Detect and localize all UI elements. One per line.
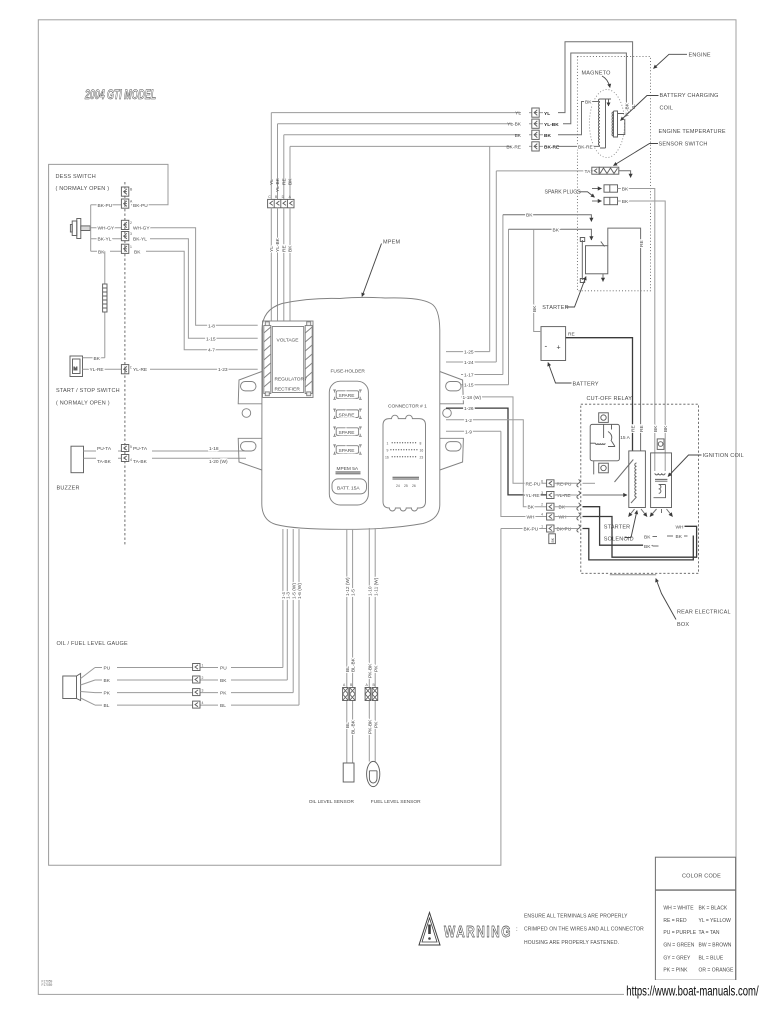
svg-text:1-8: 1-8 xyxy=(208,323,215,329)
svg-text:BK-PU: BK-PU xyxy=(98,203,113,209)
cut-off relay coil xyxy=(590,443,605,444)
svg-text:YL = YELLOW: YL = YELLOW xyxy=(699,918,732,924)
voltage regulator module xyxy=(263,321,314,398)
svg-text:1-12 (W): 1-12 (W) xyxy=(345,577,351,596)
wire 1-2 to YL-RE xyxy=(446,420,547,507)
svg-text:BOX: BOX xyxy=(677,622,689,628)
svg-text:5: 5 xyxy=(130,445,132,449)
magneto dotted ellipse xyxy=(589,90,624,158)
svg-text:BK: BK xyxy=(104,678,111,684)
svg-text:3: 3 xyxy=(202,689,204,693)
svg-text:TA-BK: TA-BK xyxy=(133,459,148,465)
svg-text:BK: BK xyxy=(551,537,555,542)
svg-text:BK-PU: BK-PU xyxy=(524,527,539,533)
4-pin connector block C B D A xyxy=(268,199,294,207)
svg-text:BUZZER: BUZZER xyxy=(57,486,80,492)
thick BK-PU wire inside box xyxy=(583,529,694,560)
MPEM right circle hole xyxy=(443,409,452,418)
svg-text:YL: YL xyxy=(269,246,275,252)
svg-text:BL: BL xyxy=(345,666,351,672)
starter solenoid coil xyxy=(635,463,637,497)
battery xyxy=(541,327,566,361)
wire YL-RE row xyxy=(83,368,258,370)
wire bundle row1 YL xyxy=(271,112,543,114)
svg-text:TA: TA xyxy=(585,169,592,175)
svg-text:M: M xyxy=(74,366,78,371)
connector #1 bottom bar and pins 24 25 26 xyxy=(393,477,420,479)
svg-text:STARTER: STARTER xyxy=(542,305,569,311)
wire BK engine row A with v3 riser (1-17) xyxy=(461,215,503,375)
cut-off relay mounting ear top xyxy=(599,413,609,423)
starter motor xyxy=(580,238,608,283)
svg-text:SPARE: SPARE xyxy=(339,430,355,436)
svg-text:1-15: 1-15 xyxy=(464,383,474,389)
svg-text:1-2: 1-2 xyxy=(465,418,472,424)
connector pin 1 xyxy=(121,244,128,253)
BK branch wire with inline fuse xyxy=(104,251,106,357)
svg-text:PU: PU xyxy=(220,666,227,672)
svg-text:BK-YL: BK-YL xyxy=(98,237,112,243)
svg-text:BK: BK xyxy=(544,133,551,139)
svg-text:REAR ELECTRICAL: REAR ELECTRICAL xyxy=(677,610,731,616)
wire bundle row2 YL-BK xyxy=(278,123,544,125)
svg-text:RE: RE xyxy=(639,425,645,432)
svg-text:YL: YL xyxy=(269,179,275,185)
svg-text:MPEM 5A: MPEM 5A xyxy=(337,466,359,472)
oil/fuel gauge symbol xyxy=(63,674,81,701)
svg-text:BL: BL xyxy=(104,703,110,709)
svg-text:1-26: 1-26 xyxy=(464,406,474,412)
svg-text:1-5: 1-5 xyxy=(351,589,357,596)
rear box bottom plate line xyxy=(610,574,656,576)
svg-text:RE: RE xyxy=(631,425,637,432)
svg-text:YL-RE: YL-RE xyxy=(133,367,147,373)
svg-text:WH: WH xyxy=(676,524,685,530)
svg-text:PU-TA: PU-TA xyxy=(133,446,148,452)
MPEM right bottom mounting flange xyxy=(440,438,464,470)
svg-text:TA = TAN: TA = TAN xyxy=(699,930,720,936)
wire YL route over top xyxy=(558,42,633,113)
svg-text:SENSOR SWITCH: SENSOR SWITCH xyxy=(659,142,708,148)
cut-off relay contact xyxy=(608,425,615,447)
svg-text:BL: BL xyxy=(345,722,351,728)
svg-text:BK: BK xyxy=(94,356,101,362)
svg-text:YL-RE: YL-RE xyxy=(526,493,540,499)
small connector tag below BK-PU xyxy=(549,534,556,544)
svg-text:SPARE: SPARE xyxy=(339,448,355,454)
warning triangle xyxy=(419,913,440,946)
svg-text:PU-TA: PU-TA xyxy=(97,446,112,452)
wire PU row xyxy=(95,667,283,669)
wire YL-BK route over top xyxy=(563,53,626,124)
wire WH-GY row xyxy=(91,228,258,326)
svg-text:1-24: 1-24 xyxy=(464,360,474,366)
wire PU-TA row xyxy=(84,450,247,452)
svg-text:BK-PU: BK-PU xyxy=(557,527,572,533)
svg-text:1-5 (W): 1-5 (W) xyxy=(291,583,297,599)
svg-text:PK: PK xyxy=(104,691,111,697)
svg-text:BK: BK xyxy=(663,425,669,432)
svg-text:YL-RE: YL-RE xyxy=(90,367,104,373)
inline fuse component xyxy=(103,284,107,312)
MPEM right top mounting flange xyxy=(440,372,464,404)
svg-text:CONNECTOR # 1: CONNECTOR # 1 xyxy=(388,404,427,410)
svg-text:4: 4 xyxy=(202,701,204,705)
svg-text:1-9: 1-9 xyxy=(465,429,472,435)
wire BK row xyxy=(91,251,258,349)
start/stop switch symbol xyxy=(70,356,83,377)
svg-text:1-11 (W): 1-11 (W) xyxy=(373,577,379,596)
svg-text:RE-PU: RE-PU xyxy=(526,481,541,487)
svg-text:2004 GTI MODEL: 2004 GTI MODEL xyxy=(84,87,156,102)
fuse SPARE 4 xyxy=(333,445,362,454)
svg-text:YL-BK: YL-BK xyxy=(624,102,630,117)
svg-text:15 A: 15 A xyxy=(620,435,630,441)
svg-text:COLOR CODE: COLOR CODE xyxy=(682,874,721,880)
fuse SPARE 1 xyxy=(333,390,362,399)
starter solenoid body xyxy=(629,451,646,508)
svg-text:BATT. 15A: BATT. 15A xyxy=(337,486,360,492)
svg-text:RE: RE xyxy=(568,332,575,338)
svg-text:23: 23 xyxy=(420,456,424,460)
svg-text:BK-RE: BK-RE xyxy=(544,145,560,151)
wire BL row xyxy=(95,704,299,706)
svg-text:OIL LEVEL SENSOR: OIL LEVEL SENSOR xyxy=(309,799,355,805)
battery BK ground wire xyxy=(534,229,541,331)
svg-text:PK: PK xyxy=(220,691,227,697)
svg-text:BK-YL: BK-YL xyxy=(133,237,147,243)
connector #1 body xyxy=(383,415,426,511)
svg-text:1: 1 xyxy=(387,442,389,446)
connector pin A xyxy=(121,199,128,208)
svg-text:BL-BK: BL-BK xyxy=(351,719,357,734)
svg-text:F17059: F17059 xyxy=(42,983,53,987)
color code entries xyxy=(663,906,734,974)
DESS switch common vertical wire xyxy=(90,205,92,252)
svg-text:BK: BK xyxy=(585,100,592,106)
battery RE wire to rear box xyxy=(566,338,633,451)
svg-text:RE: RE xyxy=(281,178,287,185)
svg-text:8: 8 xyxy=(420,442,422,446)
svg-text:OR = ORANGE: OR = ORANGE xyxy=(699,967,735,973)
svg-text:25: 25 xyxy=(404,484,408,488)
fuse holder body xyxy=(329,381,368,505)
fuse SPARE 3 xyxy=(333,427,362,436)
svg-text:BK: BK xyxy=(515,133,522,139)
svg-text:PK = PINK: PK = PINK xyxy=(663,967,688,973)
svg-text:GN = GREEN: GN = GREEN xyxy=(663,943,694,949)
svg-text:BK: BK xyxy=(622,199,629,205)
wire bundle row4 BK-RE xyxy=(290,145,543,147)
wire TA row and v2 riser (1-24) xyxy=(446,171,593,362)
sensor ground wire and arrow xyxy=(619,171,631,178)
svg-text:PK-BK: PK-BK xyxy=(367,719,373,734)
svg-text:WH: WH xyxy=(559,515,568,521)
svg-text:SPARE: SPARE xyxy=(339,412,355,418)
svg-text:BK: BK xyxy=(622,187,629,193)
svg-text:YL-BK: YL-BK xyxy=(275,177,281,192)
starter RE wire down to rear box xyxy=(608,228,641,451)
engine dotted boundary box xyxy=(577,57,650,291)
svg-text:GY = GREY: GY = GREY xyxy=(663,955,691,961)
svg-text:3: 3 xyxy=(130,232,132,236)
wire BK from start/stop up to DESS BK xyxy=(83,357,105,359)
svg-text:PK-BK: PK-BK xyxy=(367,663,373,678)
starter ground arrow xyxy=(602,274,604,282)
svg-text:-: - xyxy=(545,342,548,351)
dashed connector boundary line xyxy=(124,182,126,545)
svg-text:PK: PK xyxy=(373,721,379,728)
svg-text:BL = BLUE: BL = BLUE xyxy=(699,955,724,961)
connector pin B xyxy=(121,187,128,196)
svg-text:1: 1 xyxy=(202,664,204,668)
DESS switch post symbol xyxy=(70,219,90,239)
svg-text:1-3: 1-3 xyxy=(285,592,291,599)
MPEM gauge wires down xyxy=(282,529,284,668)
svg-text:SPARE: SPARE xyxy=(339,393,355,399)
svg-text:1-20 (W): 1-20 (W) xyxy=(209,459,228,465)
svg-text:FUSE-HOLDER: FUSE-HOLDER xyxy=(331,369,366,375)
svg-text:1-25: 1-25 xyxy=(464,350,474,356)
engine temperature sensor component xyxy=(592,167,599,174)
svg-text:HOUSING ARE PROPERLY FASTENED.: HOUSING ARE PROPERLY FASTENED. xyxy=(524,940,619,946)
ignition coil mounting ear xyxy=(657,439,664,450)
svg-text:+: + xyxy=(557,345,561,352)
svg-text:1-18: 1-18 xyxy=(209,446,219,452)
svg-text:BK: BK xyxy=(676,534,683,540)
connector #1 pin dots xyxy=(390,442,417,457)
fuse BATT. 15A xyxy=(332,479,367,494)
svg-text:CRIMPED ON THE WIRES AND ALL C: CRIMPED ON THE WIRES AND ALL CONNECTOR xyxy=(524,926,644,932)
svg-text:BK: BK xyxy=(288,178,294,185)
svg-text:SPARK PLUGS: SPARK PLUGS xyxy=(545,190,582,196)
wire 1-9 row joining loop xyxy=(446,430,501,432)
svg-text:3: 3 xyxy=(541,491,543,495)
connector pin 4 xyxy=(121,455,128,462)
svg-text:BK: BK xyxy=(526,213,533,219)
oil sensor wires down xyxy=(346,529,348,763)
thick BK wire inside box xyxy=(583,507,653,546)
wire 1-26 to BK (bold) xyxy=(446,408,547,495)
svg-text:YL-BK: YL-BK xyxy=(544,122,559,128)
svg-text:1: 1 xyxy=(130,245,132,249)
svg-text:START / STOP SWITCH: START / STOP SWITCH xyxy=(56,388,120,394)
svg-text:6: 6 xyxy=(130,365,132,369)
svg-text:2: 2 xyxy=(202,676,204,680)
wire BK engine row B with v4 riser (1-15) xyxy=(461,229,509,384)
svg-text:BW = BROWN: BW = BROWN xyxy=(699,943,732,949)
wire TA-BK row xyxy=(84,457,247,459)
svg-text:BK = BLACK: BK = BLACK xyxy=(699,906,728,912)
svg-text:BATTERY: BATTERY xyxy=(573,381,599,387)
svg-text:DESS SWITCH: DESS SWITCH xyxy=(56,174,96,180)
svg-text:( NORMALY OPEN ): ( NORMALY OPEN ) xyxy=(56,401,110,407)
svg-text:MPEM: MPEM xyxy=(383,240,401,246)
buzzer symbol xyxy=(71,446,84,473)
svg-text:WARNING: WARNING xyxy=(444,924,512,941)
svg-text:BK: BK xyxy=(559,505,566,511)
svg-text:4: 4 xyxy=(130,458,132,462)
svg-text:PK: PK xyxy=(373,665,379,672)
svg-text:2: 2 xyxy=(130,221,132,225)
svg-text:9: 9 xyxy=(387,449,389,453)
svg-text:BK: BK xyxy=(134,249,141,255)
svg-text:1-17: 1-17 xyxy=(464,373,474,379)
magneto wire connectors xyxy=(532,108,539,117)
svg-text:BK: BK xyxy=(532,305,538,312)
svg-text:6: 6 xyxy=(541,479,543,483)
svg-text:OIL / FUEL LEVEL GAUGE: OIL / FUEL LEVEL GAUGE xyxy=(57,641,128,647)
svg-text:BK: BK xyxy=(288,245,294,252)
wires below connector into MPEM xyxy=(271,208,290,321)
svg-text:BK-RE: BK-RE xyxy=(578,144,593,150)
color code box xyxy=(655,857,735,980)
svg-text:CUT-OFF RELAY: CUT-OFF RELAY xyxy=(587,396,633,402)
svg-text:MAGNETO: MAGNETO xyxy=(582,71,612,77)
svg-text:1-15: 1-15 xyxy=(206,336,216,342)
relay to solenoid wire xyxy=(594,460,634,483)
svg-text:ENGINE: ENGINE xyxy=(689,52,711,58)
svg-text:VOLTAGE: VOLTAGE xyxy=(277,338,299,344)
svg-text:24: 24 xyxy=(396,484,400,488)
cut-off relay body xyxy=(590,424,619,460)
svg-text:YL: YL xyxy=(515,111,521,117)
svg-text:16: 16 xyxy=(385,456,389,460)
svg-text:RECTIFIER: RECTIFIER xyxy=(275,387,301,393)
svg-text:16: 16 xyxy=(420,449,424,453)
svg-text:BK-RE: BK-RE xyxy=(506,144,521,150)
svg-text:1-6 (W): 1-6 (W) xyxy=(297,583,303,599)
svg-text:WH: WH xyxy=(527,515,536,521)
svg-text:FUEL LEVEL SENSOR: FUEL LEVEL SENSOR xyxy=(371,799,421,805)
wire BK-RE to magneto coil xyxy=(558,145,600,147)
svg-text:BK: BK xyxy=(644,535,651,541)
wire BK row xyxy=(95,679,287,681)
fuse SPARE 2 xyxy=(333,409,362,418)
wire BK to magneto coil xyxy=(558,102,600,135)
svg-text:2: 2 xyxy=(541,503,543,507)
svg-text:BL: BL xyxy=(220,703,226,709)
svg-text:YL: YL xyxy=(544,111,550,117)
svg-text:PU = PURPLE: PU = PURPLE xyxy=(663,930,696,936)
svg-text:BL-BK: BL-BK xyxy=(351,657,357,672)
wire PK row xyxy=(95,692,293,694)
svg-text:IGNITION COIL: IGNITION COIL xyxy=(703,453,744,459)
connector pin 2 xyxy=(121,220,128,229)
svg-text:YL-RE: YL-RE xyxy=(557,493,571,499)
MPEM left bottom mounting flange xyxy=(238,438,262,470)
wire 1-25 to BK-RE riser v1 xyxy=(446,146,490,351)
svg-text:YL-BK: YL-BK xyxy=(507,122,522,128)
MPEM left top mounting flange xyxy=(238,372,262,404)
spark plug 1 xyxy=(592,188,602,190)
gauge connector pins 1-4 xyxy=(193,664,200,671)
svg-text:ENGINE TEMPERATURE: ENGINE TEMPERATURE xyxy=(659,129,726,135)
svg-text:WH = WHITE: WH = WHITE xyxy=(663,906,694,912)
oil level sensor body xyxy=(343,763,354,782)
svg-text:RE: RE xyxy=(281,245,287,252)
svg-text:TA-BK: TA-BK xyxy=(97,459,112,465)
svg-text:RE-PU: RE-PU xyxy=(557,481,572,487)
MPEM blob outline xyxy=(262,297,440,529)
svg-text:BK-PU: BK-PU xyxy=(133,203,148,209)
svg-text:YL-BK: YL-BK xyxy=(275,237,281,252)
connector pin 3 xyxy=(121,232,128,241)
MPEM left circle hole xyxy=(242,409,251,418)
wire BK-PU row stub xyxy=(91,204,97,206)
svg-text:BK: BK xyxy=(653,425,659,432)
svg-text:ENSURE ALL TERMINALS ARE PROPE: ENSURE ALL TERMINALS ARE PROPERLY xyxy=(524,914,628,920)
svg-text:STARTER: STARTER xyxy=(604,525,631,531)
ignition coil body xyxy=(651,453,672,508)
svg-text:PU: PU xyxy=(104,666,111,672)
thick WH wire inside box xyxy=(583,517,697,558)
fuel sensor wires down xyxy=(368,528,370,762)
connector pin 6 xyxy=(121,365,128,374)
url background xyxy=(624,980,764,999)
svg-text:https://www.boat-manuals.com/: https://www.boat-manuals.com/ xyxy=(626,984,758,999)
gauge fan wires xyxy=(81,668,95,706)
solenoid and coil bottom terminal legs xyxy=(629,509,635,517)
svg-text:WH-GY: WH-GY xyxy=(133,226,150,232)
connector pin 5 xyxy=(121,445,128,452)
svg-text:BK: BK xyxy=(553,227,560,233)
svg-text:1-18 (W): 1-18 (W) xyxy=(463,395,482,401)
svg-text:( NORMALY OPEN ): ( NORMALY OPEN ) xyxy=(56,186,110,192)
svg-text:RE: RE xyxy=(639,240,645,247)
wire bundle row3 BK xyxy=(284,134,543,136)
svg-text:4: 4 xyxy=(541,513,543,517)
svg-text:1: 1 xyxy=(541,525,543,529)
ignition generator coil xyxy=(598,99,611,148)
fuel level sensor body xyxy=(367,761,380,786)
svg-text:RE = RED: RE = RED xyxy=(663,918,687,924)
rear electrical box dashed boundary xyxy=(581,404,699,573)
svg-text:WH-GY: WH-GY xyxy=(98,226,115,232)
svg-text:4-7: 4-7 xyxy=(208,348,215,354)
svg-text:BK: BK xyxy=(220,678,227,684)
ignition coil windings xyxy=(655,473,665,475)
svg-text:BK: BK xyxy=(528,505,535,511)
wire BK-YL row xyxy=(91,239,258,339)
battery charging coil xyxy=(612,111,625,137)
wire 1-18 (W) to RE-PU xyxy=(461,397,547,483)
svg-text:26: 26 xyxy=(412,484,416,488)
wire WH riser xyxy=(501,431,547,516)
wire BK-PU branch to rear box xyxy=(501,528,547,530)
spark plug 2 xyxy=(592,200,602,202)
svg-text:1-10: 1-10 xyxy=(367,586,373,596)
svg-text:BK: BK xyxy=(98,249,105,255)
svg-text:REGULATOR /: REGULATOR / xyxy=(275,377,308,383)
cut-off relay mounting ear bottom xyxy=(599,463,609,473)
svg-text:BK: BK xyxy=(644,544,651,550)
svg-text:1-23: 1-23 xyxy=(218,367,228,373)
svg-text:COIL: COIL xyxy=(660,106,674,112)
wire BK-PU big loop (DESS to rear electrical box) xyxy=(49,164,501,865)
svg-text:BATTERY CHARGING: BATTERY CHARGING xyxy=(660,93,719,99)
